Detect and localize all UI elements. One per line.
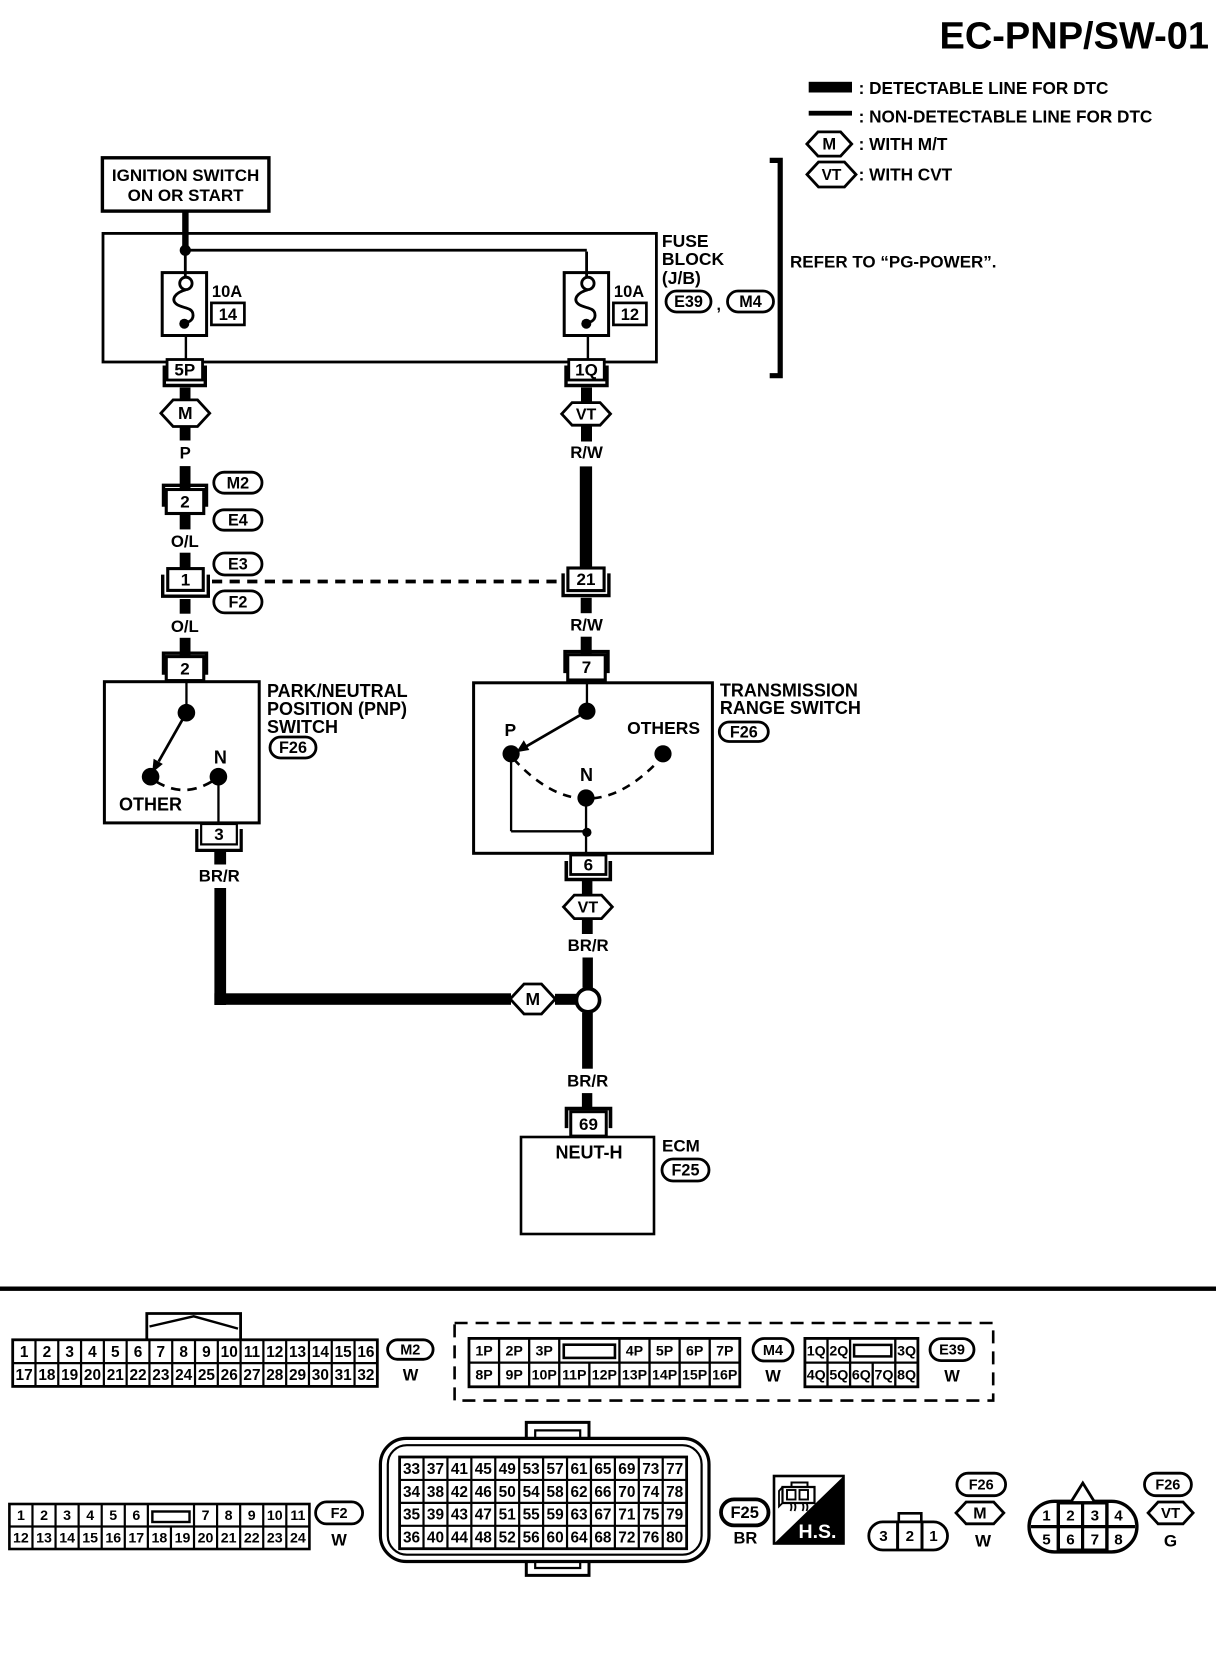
svg-text:3: 3 xyxy=(214,825,223,844)
svg-text:VT: VT xyxy=(1161,1505,1180,1522)
svg-text:R/W: R/W xyxy=(570,443,603,462)
svg-text:: DETECTABLE LINE FOR DTC: : DETECTABLE LINE FOR DTC xyxy=(859,78,1109,98)
svg-text:5: 5 xyxy=(1042,1532,1051,1549)
connector F2 pin grid xyxy=(9,1504,309,1549)
label ECM xyxy=(662,1137,700,1156)
svg-text:16: 16 xyxy=(357,1344,374,1361)
svg-text:26: 26 xyxy=(221,1367,238,1384)
wire color label O/L xyxy=(171,532,199,551)
svg-text:3: 3 xyxy=(65,1344,74,1361)
bracket for refer note xyxy=(770,160,781,375)
wire N contact to connector 3 xyxy=(217,777,219,823)
svg-text:M: M xyxy=(526,989,541,1009)
svg-text:F25: F25 xyxy=(730,1504,758,1522)
svg-text:48: 48 xyxy=(475,1530,493,1547)
wire BR/R down to corner xyxy=(214,888,226,1005)
connector 3 xyxy=(197,824,241,850)
svg-text:9P: 9P xyxy=(505,1368,522,1384)
svg-text:18: 18 xyxy=(152,1531,168,1547)
svg-text:10A: 10A xyxy=(614,283,644,301)
legend: non-detectable line for DTC xyxy=(809,107,1153,127)
junction node xyxy=(180,245,191,256)
svg-text:(J/B): (J/B) xyxy=(662,268,701,288)
svg-text:69: 69 xyxy=(579,1115,598,1134)
PNP OTHER contact xyxy=(142,768,160,786)
svg-text:12: 12 xyxy=(266,1344,283,1361)
connector oval E39 (pinout) xyxy=(930,1339,974,1361)
svg-text:M4: M4 xyxy=(763,1343,783,1359)
svg-text:2: 2 xyxy=(180,659,189,678)
connector 1 (E3/F2) xyxy=(163,569,209,597)
svg-text:7: 7 xyxy=(1091,1532,1099,1549)
svg-text:71: 71 xyxy=(618,1507,636,1524)
wire color label BR/R (upper right) xyxy=(568,936,609,955)
svg-text:51: 51 xyxy=(499,1507,517,1524)
color label W (F26 3-pin) xyxy=(975,1532,992,1551)
connector oval M4 (pinout) xyxy=(753,1339,793,1362)
svg-text:6: 6 xyxy=(1066,1532,1074,1549)
svg-text:42: 42 xyxy=(451,1484,468,1501)
connector oval F26 (3-pin) xyxy=(957,1473,1006,1496)
svg-text:12P: 12P xyxy=(592,1368,617,1384)
connector oval E4 xyxy=(214,510,262,530)
label N (TRS) xyxy=(580,765,593,785)
svg-text:2: 2 xyxy=(906,1528,914,1545)
svg-text:69: 69 xyxy=(618,1461,635,1478)
svg-text:ON OR START: ON OR START xyxy=(128,186,244,205)
svg-text:20: 20 xyxy=(198,1531,214,1547)
svg-text:W: W xyxy=(765,1368,781,1386)
svg-text:21: 21 xyxy=(577,570,596,589)
svg-text:ECM: ECM xyxy=(662,1137,700,1156)
svg-text:EC-PNP/SW-01: EC-PNP/SW-01 xyxy=(939,16,1209,58)
svg-text:47: 47 xyxy=(475,1507,492,1524)
svg-text:12: 12 xyxy=(621,306,639,324)
svg-text:23: 23 xyxy=(267,1531,283,1547)
connector oval M2 (pinout) xyxy=(388,1340,434,1360)
svg-text:4Q: 4Q xyxy=(807,1368,826,1384)
svg-text:11P: 11P xyxy=(562,1368,586,1384)
connector oval E39 xyxy=(666,291,711,312)
svg-text:BR: BR xyxy=(733,1530,757,1548)
svg-text:4P: 4P xyxy=(626,1343,643,1359)
svg-text:IGNITION SWITCH: IGNITION SWITCH xyxy=(112,166,259,185)
legend: with CVT symbol xyxy=(807,162,953,187)
svg-text:E3: E3 xyxy=(228,556,248,574)
svg-text:39: 39 xyxy=(427,1507,444,1524)
wire below option VT to BR/R xyxy=(582,919,593,934)
fuse 14 labels xyxy=(211,283,244,325)
svg-text:14P: 14P xyxy=(652,1368,677,1384)
svg-text:REFER TO “PG-POWER”.: REFER TO “PG-POWER”. xyxy=(790,252,997,271)
dashed group box for fuse block connectors xyxy=(455,1323,994,1401)
svg-text:3Q: 3Q xyxy=(897,1343,916,1359)
option symbol M (3-pin) xyxy=(956,1502,1004,1524)
svg-text:1: 1 xyxy=(20,1344,29,1361)
connector oval F2 (pinout) xyxy=(316,1502,363,1524)
svg-text:27: 27 xyxy=(243,1367,260,1384)
connector 2 (PNP switch) xyxy=(164,653,207,680)
TRS N contact xyxy=(577,789,594,806)
transmission range switch box xyxy=(474,683,713,854)
color label BR (F25) xyxy=(733,1530,757,1548)
svg-text:: WITH M/T: : WITH M/T xyxy=(859,134,948,154)
svg-text:E39: E39 xyxy=(939,1343,965,1359)
svg-text:19: 19 xyxy=(175,1531,191,1547)
TRS common contact xyxy=(578,703,595,720)
svg-text:M2: M2 xyxy=(400,1343,420,1359)
svg-text:O/L: O/L xyxy=(171,532,199,551)
svg-text:F26: F26 xyxy=(969,1477,994,1493)
svg-text:VT: VT xyxy=(578,899,599,916)
svg-text:F26: F26 xyxy=(1155,1477,1180,1493)
svg-text:70: 70 xyxy=(618,1484,635,1501)
svg-text:3: 3 xyxy=(63,1508,71,1524)
svg-text:2: 2 xyxy=(40,1508,48,1524)
wire into PNP switch xyxy=(185,683,187,713)
svg-text:W: W xyxy=(944,1368,960,1386)
svg-text:17: 17 xyxy=(128,1531,144,1547)
junction circle xyxy=(576,989,599,1012)
connector F25 pin grid xyxy=(400,1457,687,1549)
svg-text:6Q: 6Q xyxy=(852,1368,871,1384)
svg-text:11: 11 xyxy=(290,1508,305,1524)
svg-text:H.S.: H.S. xyxy=(799,1521,837,1543)
svg-text:2: 2 xyxy=(1066,1508,1074,1525)
legend: with M/T symbol xyxy=(807,132,948,156)
dashed wire connector 1 to connector 21 xyxy=(212,580,562,584)
svg-text:21: 21 xyxy=(107,1367,125,1384)
label TRANSMISSION RANGE SWITCH xyxy=(720,681,861,719)
PNP dashed travel arc xyxy=(156,781,214,791)
svg-text:13: 13 xyxy=(36,1531,52,1547)
connector oval F26 (TRS) xyxy=(719,722,768,742)
label OTHER xyxy=(119,795,182,815)
svg-text:41: 41 xyxy=(451,1461,469,1478)
park/neutral position switch box xyxy=(104,682,259,823)
svg-text:25: 25 xyxy=(198,1367,216,1384)
svg-text:30: 30 xyxy=(312,1367,329,1384)
svg-text:68: 68 xyxy=(594,1530,612,1547)
svg-text:W: W xyxy=(331,1532,347,1550)
wire corner to option symbol M xyxy=(214,993,511,1005)
svg-text:73: 73 xyxy=(642,1461,659,1478)
PNP N contact xyxy=(210,768,228,786)
wire O/L to connector 1 xyxy=(180,553,191,569)
wire junction circle to BR/R label xyxy=(582,1013,593,1069)
svg-text:1Q: 1Q xyxy=(807,1343,826,1359)
svg-text:34: 34 xyxy=(403,1484,421,1501)
svg-text:80: 80 xyxy=(666,1530,683,1547)
svg-text:5: 5 xyxy=(111,1344,120,1361)
svg-text:E4: E4 xyxy=(228,512,248,530)
svg-text:76: 76 xyxy=(642,1530,659,1547)
label REFER TO PG-POWER xyxy=(790,252,997,271)
svg-text:1: 1 xyxy=(929,1528,938,1545)
svg-text:77: 77 xyxy=(666,1461,683,1478)
wire color label R/W xyxy=(570,443,603,462)
TRS switch arm arrow xyxy=(516,711,587,752)
wire BR/R to connector 69 xyxy=(582,1093,592,1109)
option symbol M (with M/T) xyxy=(161,400,210,427)
svg-text:11: 11 xyxy=(244,1344,261,1361)
label OTHERS xyxy=(627,718,700,738)
svg-text:56: 56 xyxy=(523,1530,540,1547)
svg-text:13P: 13P xyxy=(622,1368,647,1384)
wire connector 21 to R/W label xyxy=(581,598,592,613)
svg-text:66: 66 xyxy=(594,1484,611,1501)
svg-text:PARK/NEUTRAL: PARK/NEUTRAL xyxy=(267,681,408,701)
TRS P contact xyxy=(503,745,520,762)
svg-text:BR/R: BR/R xyxy=(568,936,609,955)
svg-text:7: 7 xyxy=(157,1344,166,1361)
svg-text:2Q: 2Q xyxy=(829,1343,848,1359)
svg-text:4: 4 xyxy=(88,1344,97,1361)
connector E39 pin grid xyxy=(805,1338,918,1386)
svg-text:53: 53 xyxy=(523,1461,540,1478)
svg-text:P: P xyxy=(180,444,191,463)
svg-text:16P: 16P xyxy=(712,1368,737,1384)
svg-text:58: 58 xyxy=(547,1484,565,1501)
svg-text:74: 74 xyxy=(642,1484,660,1501)
comma separator xyxy=(717,297,721,314)
wire option M to junction circle xyxy=(555,994,577,1005)
fuse 12 (10A) xyxy=(564,273,608,336)
svg-text:W: W xyxy=(403,1367,419,1385)
svg-text:4: 4 xyxy=(86,1508,94,1524)
svg-text:37: 37 xyxy=(427,1461,444,1478)
wire color label O/L lower xyxy=(171,617,199,636)
svg-text:23: 23 xyxy=(152,1367,169,1384)
svg-text:45: 45 xyxy=(475,1461,493,1478)
svg-text:3: 3 xyxy=(1091,1508,1099,1525)
svg-text:59: 59 xyxy=(547,1507,564,1524)
connector M4 pin grid xyxy=(469,1338,740,1386)
svg-text:1Q: 1Q xyxy=(575,361,598,380)
svg-text:67: 67 xyxy=(594,1507,611,1524)
svg-text:55: 55 xyxy=(523,1507,541,1524)
svg-text:29: 29 xyxy=(289,1367,306,1384)
svg-text:M2: M2 xyxy=(227,474,250,492)
svg-text:61: 61 xyxy=(570,1461,588,1478)
wire R/W to connector 21 xyxy=(580,466,592,568)
wire ignition switch to fuse block junction xyxy=(182,211,188,253)
svg-text:1: 1 xyxy=(181,570,190,589)
svg-text:2P: 2P xyxy=(505,1343,522,1359)
wire N contact to box bottom xyxy=(585,798,587,853)
svg-text:VT: VT xyxy=(822,167,842,184)
svg-text:6P: 6P xyxy=(686,1343,703,1359)
PNP switch arm arrow xyxy=(152,713,186,773)
svg-text:46: 46 xyxy=(475,1484,492,1501)
separator line xyxy=(0,1287,1216,1291)
svg-text:7Q: 7Q xyxy=(875,1368,894,1384)
label FUSE BLOCK (J/B) xyxy=(662,231,725,288)
svg-text:N: N xyxy=(214,748,227,768)
wire P to connector 2 xyxy=(180,466,191,489)
connector 2 (M2/E4) xyxy=(164,485,207,513)
svg-text:N: N xyxy=(580,765,593,785)
wire into transmission range switch xyxy=(586,684,588,712)
svg-text:9: 9 xyxy=(248,1508,256,1524)
connector oval E3 xyxy=(214,553,262,575)
H.S. data link icon xyxy=(774,1476,844,1544)
label PARK/NEUTRAL POSITION (PNP) SWITCH xyxy=(267,681,408,737)
option symbol VT (with CVT) xyxy=(562,403,611,426)
svg-text:P: P xyxy=(505,720,517,740)
PNP common contact xyxy=(178,704,196,722)
svg-text:43: 43 xyxy=(451,1507,468,1524)
fuse block (J/B) box xyxy=(103,233,656,362)
svg-text:24: 24 xyxy=(175,1367,193,1384)
svg-text:R/W: R/W xyxy=(570,615,603,634)
wire color label P xyxy=(180,444,191,463)
svg-text:50: 50 xyxy=(499,1484,516,1501)
svg-text:22: 22 xyxy=(129,1367,146,1384)
connector 21 (body harness) xyxy=(563,568,609,596)
wire color label BR/R (left) xyxy=(199,866,240,885)
svg-text:75: 75 xyxy=(642,1507,660,1524)
wire junction to fuse 12 branch xyxy=(184,249,588,278)
svg-text:32: 32 xyxy=(357,1367,374,1384)
svg-text:79: 79 xyxy=(666,1507,683,1524)
connector 1Q xyxy=(566,360,607,386)
wire BR/R to junction circle xyxy=(583,958,593,988)
wire fuse 12 to connector 1Q xyxy=(587,336,589,361)
svg-text:64: 64 xyxy=(570,1530,588,1547)
wire 5P to option symbol xyxy=(180,388,191,401)
svg-text:6: 6 xyxy=(132,1508,140,1524)
option symbol M (mid) xyxy=(510,984,555,1014)
svg-text:5: 5 xyxy=(109,1508,117,1524)
label P (TRS) xyxy=(505,720,517,740)
svg-text:31: 31 xyxy=(335,1367,353,1384)
svg-text:OTHERS: OTHERS xyxy=(627,718,700,738)
svg-text:5P: 5P xyxy=(174,361,195,380)
ignition switch box xyxy=(102,158,269,211)
svg-text:RANGE SWITCH: RANGE SWITCH xyxy=(720,698,861,718)
svg-text:F26: F26 xyxy=(730,723,758,741)
svg-text:VT: VT xyxy=(576,406,597,423)
wire P contact to junction xyxy=(511,754,587,832)
svg-text:F2: F2 xyxy=(331,1506,348,1522)
wire connector 3 to BR/R label xyxy=(214,851,226,865)
connector oval F26 (PNP) xyxy=(270,737,316,758)
connector oval F26 (8-pin) xyxy=(1145,1473,1192,1496)
svg-text:1P: 1P xyxy=(475,1343,492,1359)
wire connector 1 to O/L label xyxy=(180,599,191,614)
svg-text:: NON-DETECTABLE LINE FOR DTC: : NON-DETECTABLE LINE FOR DTC xyxy=(859,107,1153,127)
svg-text:40: 40 xyxy=(427,1530,444,1547)
svg-text:,: , xyxy=(717,297,721,314)
svg-text:M4: M4 xyxy=(739,293,762,311)
svg-text:W: W xyxy=(975,1532,992,1551)
svg-text:35: 35 xyxy=(403,1507,421,1524)
color label G (F26 8-pin) xyxy=(1164,1532,1177,1551)
wire color label R/W lower xyxy=(570,615,603,634)
TRS OTHERS contact xyxy=(654,745,671,762)
svg-text:65: 65 xyxy=(594,1461,612,1478)
svg-text:15P: 15P xyxy=(682,1368,707,1384)
connector M2 housing notch xyxy=(147,1314,241,1340)
connector oval F25 (pinout) xyxy=(721,1499,769,1525)
svg-text:7: 7 xyxy=(202,1508,210,1524)
svg-text:10: 10 xyxy=(221,1344,238,1361)
svg-text:10P: 10P xyxy=(532,1368,557,1384)
connector F26 3-pin pinout xyxy=(869,1513,948,1550)
connector 69 (ECM) xyxy=(567,1109,611,1137)
svg-text:4: 4 xyxy=(1114,1508,1123,1525)
svg-text:52: 52 xyxy=(499,1530,516,1547)
svg-text:6: 6 xyxy=(134,1344,143,1361)
connector 7 (transmission range switch) xyxy=(565,652,608,680)
svg-text:63: 63 xyxy=(570,1507,587,1524)
svg-text:2: 2 xyxy=(180,492,189,511)
wire below option symbol xyxy=(180,427,191,441)
wire R/W to connector 7 xyxy=(581,637,592,655)
svg-text:8: 8 xyxy=(179,1344,188,1361)
connector M2 pin grid xyxy=(13,1340,378,1387)
svg-text:44: 44 xyxy=(451,1530,469,1547)
label N (PNP) xyxy=(214,748,227,768)
svg-text:2: 2 xyxy=(43,1344,52,1361)
svg-text:1: 1 xyxy=(1042,1508,1051,1525)
svg-text:22: 22 xyxy=(244,1531,260,1547)
svg-text:12: 12 xyxy=(13,1531,29,1547)
svg-text:17: 17 xyxy=(16,1367,33,1384)
connector 5P xyxy=(164,360,205,386)
svg-text:FUSE: FUSE xyxy=(662,231,709,251)
svg-text:20: 20 xyxy=(84,1367,101,1384)
svg-text:33: 33 xyxy=(403,1461,420,1478)
wire connector 2 to O/L label xyxy=(180,514,191,530)
connector oval F2 xyxy=(214,591,262,613)
svg-text:3P: 3P xyxy=(536,1343,553,1359)
color label W (M2) xyxy=(403,1367,419,1385)
svg-text:10A: 10A xyxy=(212,283,242,301)
svg-text:7: 7 xyxy=(582,658,591,677)
connector F26 8-pin pinout xyxy=(1029,1483,1137,1552)
svg-text:3: 3 xyxy=(879,1528,887,1545)
svg-text:49: 49 xyxy=(499,1461,516,1478)
svg-text:38: 38 xyxy=(427,1484,445,1501)
svg-text:14: 14 xyxy=(312,1344,330,1361)
svg-text:NEUT-H: NEUT-H xyxy=(556,1143,623,1163)
svg-text:8: 8 xyxy=(1114,1532,1122,1549)
svg-text:M: M xyxy=(822,136,836,154)
wire 1Q to option symbol xyxy=(581,388,592,403)
svg-text:57: 57 xyxy=(547,1461,564,1478)
wire color label BR/R (lower) xyxy=(567,1072,608,1091)
svg-text:BR/R: BR/R xyxy=(199,866,240,885)
svg-text:O/L: O/L xyxy=(171,617,199,636)
title EC-PNP/SW-01 xyxy=(939,16,1209,58)
svg-text:28: 28 xyxy=(266,1367,284,1384)
svg-text:62: 62 xyxy=(570,1484,587,1501)
TRS junction node xyxy=(582,828,591,837)
svg-text:F2: F2 xyxy=(228,593,247,611)
svg-text:E39: E39 xyxy=(674,293,703,311)
svg-text:14: 14 xyxy=(59,1531,75,1547)
svg-text:5Q: 5Q xyxy=(829,1368,848,1384)
svg-text:78: 78 xyxy=(666,1484,684,1501)
wire below option symbol VT xyxy=(581,425,592,441)
svg-text:24: 24 xyxy=(290,1531,306,1547)
option symbol VT (8-pin) xyxy=(1148,1502,1193,1524)
connector oval F25 (ECM) xyxy=(662,1159,709,1181)
svg-text:OTHER: OTHER xyxy=(119,795,182,815)
svg-text:7P: 7P xyxy=(716,1343,733,1359)
